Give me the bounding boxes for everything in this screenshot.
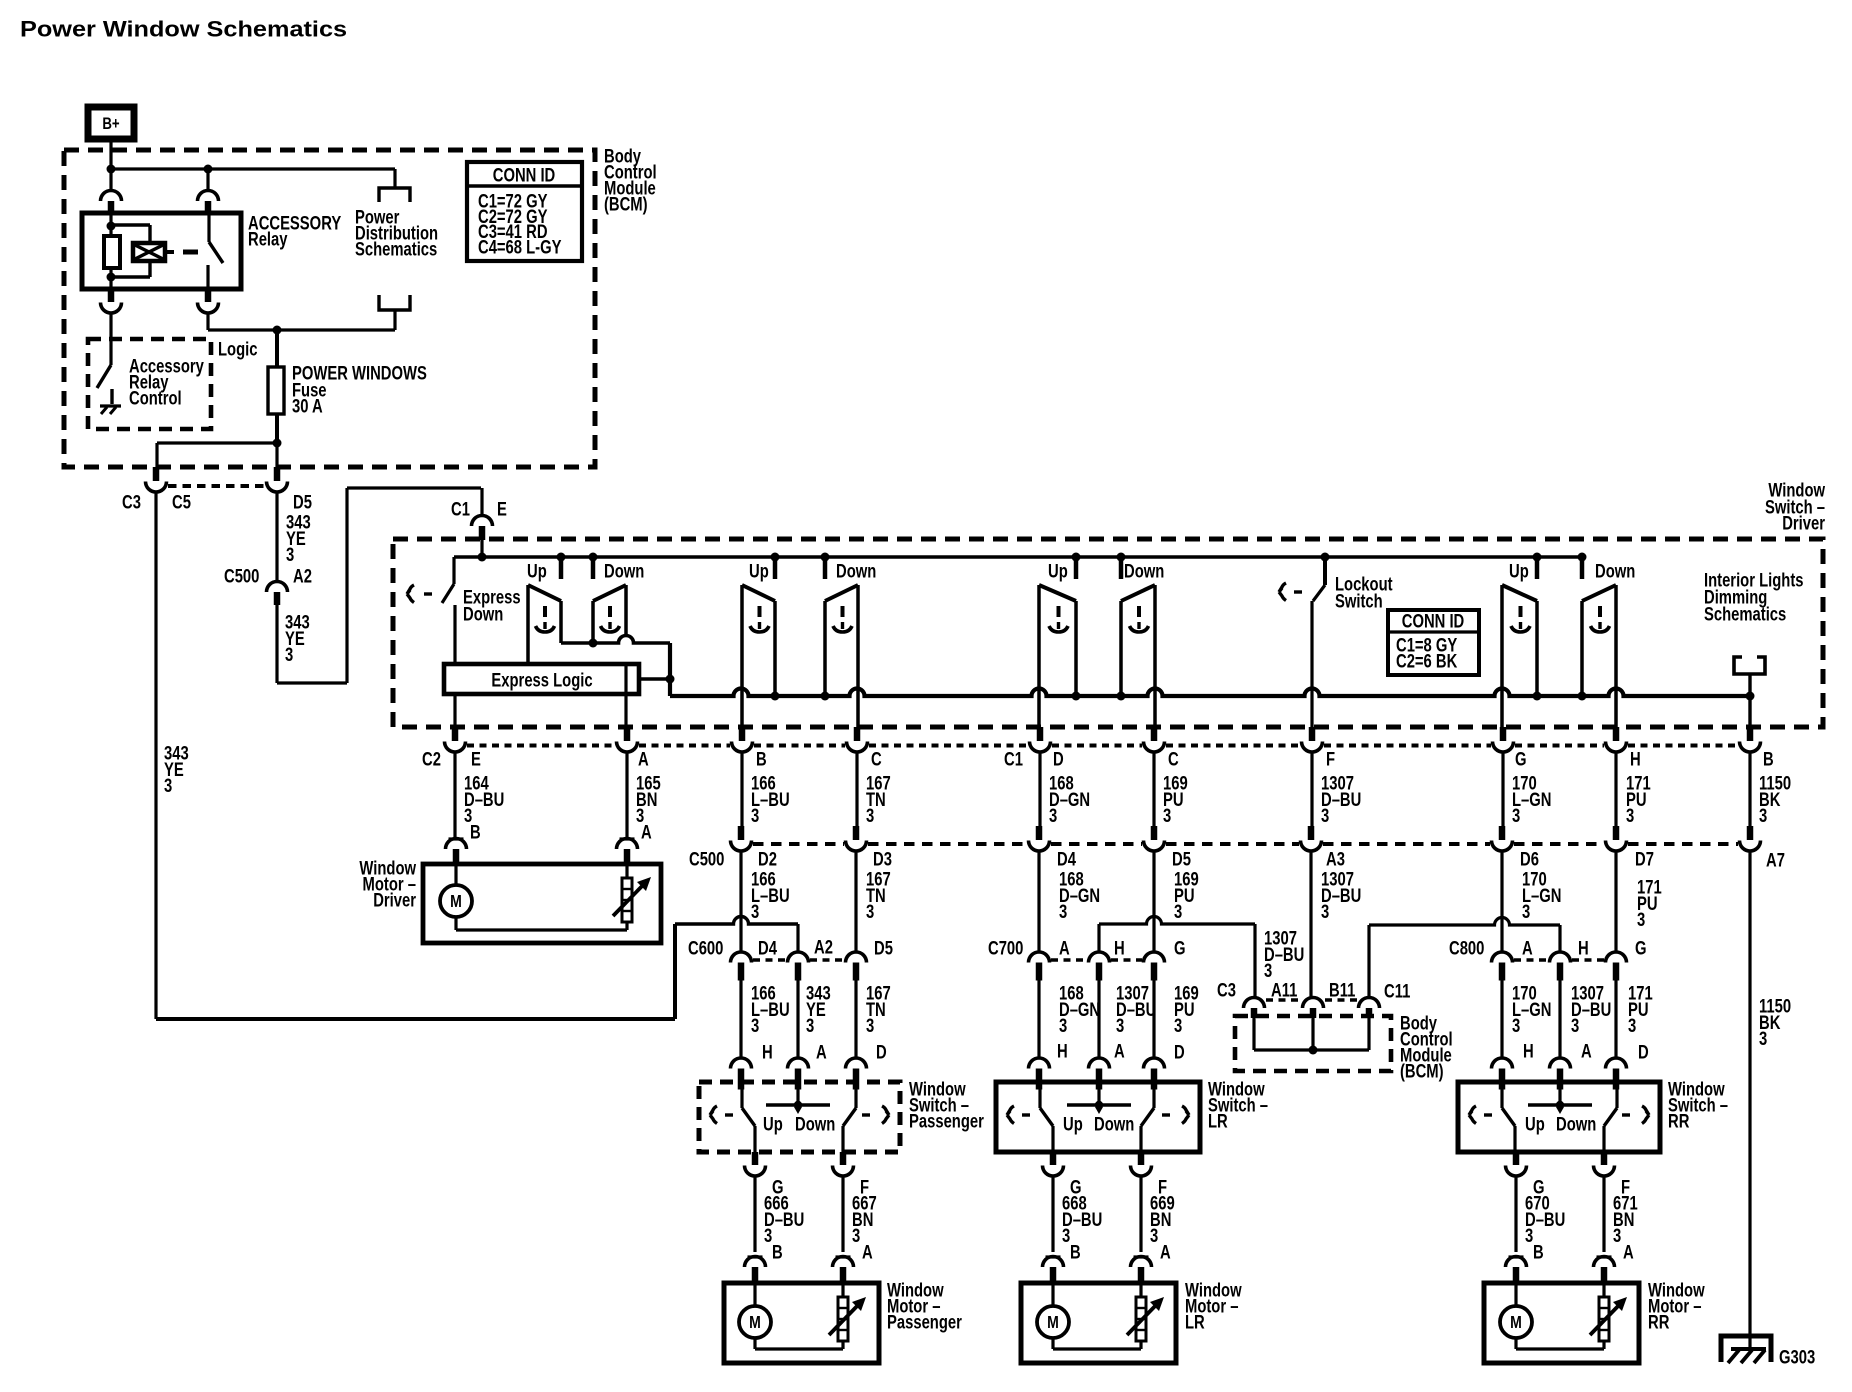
svg-text:3: 3 xyxy=(751,901,759,922)
svg-text:G: G xyxy=(1515,749,1527,770)
svg-text:3: 3 xyxy=(1628,1015,1636,1036)
svg-text:RR: RR xyxy=(1668,1111,1689,1132)
svg-text:Express Logic: Express Logic xyxy=(491,670,592,691)
svg-text:C3: C3 xyxy=(122,492,141,513)
svg-text:Down: Down xyxy=(1124,561,1164,582)
svg-text:3: 3 xyxy=(1174,901,1182,922)
svg-text:Logic: Logic xyxy=(218,339,257,360)
svg-text:C11: C11 xyxy=(1384,981,1410,1002)
svg-text:D5: D5 xyxy=(874,938,893,959)
svg-text:C800: C800 xyxy=(1449,938,1484,959)
svg-text:B+: B+ xyxy=(102,114,119,133)
svg-text:3: 3 xyxy=(1059,901,1067,922)
svg-text:3: 3 xyxy=(1059,1015,1067,1036)
svg-text:B: B xyxy=(470,822,481,843)
svg-text:3: 3 xyxy=(1163,805,1171,826)
svg-text:A: A xyxy=(816,1042,827,1063)
svg-text:CONN ID: CONN ID xyxy=(493,165,555,186)
svg-text:3: 3 xyxy=(1321,901,1329,922)
svg-text:H: H xyxy=(1057,1041,1068,1062)
svg-text:3: 3 xyxy=(164,775,172,796)
svg-text:D3: D3 xyxy=(873,849,892,870)
svg-text:C1: C1 xyxy=(451,499,470,520)
svg-text:M: M xyxy=(1047,1313,1059,1333)
svg-text:D: D xyxy=(1053,749,1064,770)
svg-text:G303: G303 xyxy=(1779,1347,1815,1368)
svg-text:3: 3 xyxy=(1759,805,1767,826)
svg-text:Passenger: Passenger xyxy=(909,1111,984,1132)
svg-text:Power Window Schematics: Power Window Schematics xyxy=(20,18,347,42)
svg-text:A: A xyxy=(1623,1242,1634,1263)
svg-text:D6: D6 xyxy=(1520,849,1539,870)
svg-text:3: 3 xyxy=(1116,1015,1124,1036)
svg-text:F: F xyxy=(1326,749,1335,770)
svg-text:Up: Up xyxy=(1509,561,1529,582)
svg-text:D: D xyxy=(1174,1042,1185,1063)
svg-text:3: 3 xyxy=(1613,1225,1621,1246)
svg-text:B: B xyxy=(756,749,767,770)
svg-text:B: B xyxy=(1533,1242,1544,1263)
svg-text:A: A xyxy=(1160,1242,1171,1263)
svg-text:H: H xyxy=(1578,938,1589,959)
svg-text:3: 3 xyxy=(1759,1028,1767,1049)
svg-text:G: G xyxy=(1635,938,1647,959)
svg-text:3: 3 xyxy=(1571,1015,1579,1036)
svg-text:B11: B11 xyxy=(1329,980,1355,1001)
svg-text:3: 3 xyxy=(286,544,294,565)
svg-text:C500: C500 xyxy=(689,849,724,870)
svg-text:M: M xyxy=(749,1313,761,1333)
svg-text:Down: Down xyxy=(463,604,503,625)
svg-text:D: D xyxy=(876,1042,887,1063)
svg-text:Up: Up xyxy=(1063,1114,1083,1135)
svg-text:3: 3 xyxy=(866,805,874,826)
svg-text:Down: Down xyxy=(836,561,876,582)
svg-text:B: B xyxy=(772,1242,783,1263)
svg-text:C: C xyxy=(1168,749,1179,770)
svg-text:D2: D2 xyxy=(758,849,777,870)
svg-text:Down: Down xyxy=(1556,1114,1596,1135)
svg-text:3: 3 xyxy=(1049,805,1057,826)
svg-text:B: B xyxy=(1763,749,1774,770)
svg-text:3: 3 xyxy=(1321,805,1329,826)
svg-text:E: E xyxy=(471,749,481,770)
svg-text:3: 3 xyxy=(1512,805,1520,826)
svg-text:A11: A11 xyxy=(1271,980,1297,1001)
svg-text:C2=6 BK: C2=6 BK xyxy=(1396,651,1458,672)
svg-text:E: E xyxy=(497,499,507,520)
svg-text:H: H xyxy=(1114,938,1125,959)
svg-text:3: 3 xyxy=(1150,1225,1158,1246)
svg-text:3: 3 xyxy=(866,1015,874,1036)
svg-text:D4: D4 xyxy=(758,938,777,959)
svg-text:3: 3 xyxy=(806,1015,814,1036)
svg-text:A2: A2 xyxy=(814,937,833,958)
svg-text:Down: Down xyxy=(795,1114,835,1135)
svg-text:3: 3 xyxy=(1174,1015,1182,1036)
svg-text:3: 3 xyxy=(1626,805,1634,826)
svg-text:D5: D5 xyxy=(293,492,312,513)
svg-text:C: C xyxy=(871,749,882,770)
svg-text:3: 3 xyxy=(1264,960,1272,981)
svg-text:3: 3 xyxy=(1512,1015,1520,1036)
svg-text:A: A xyxy=(1059,938,1070,959)
svg-text:D7: D7 xyxy=(1635,849,1654,870)
svg-text:H: H xyxy=(1523,1041,1534,1062)
svg-text:Relay: Relay xyxy=(248,229,288,250)
svg-text:C600: C600 xyxy=(688,938,723,959)
svg-text:M: M xyxy=(450,892,462,912)
svg-text:A: A xyxy=(1522,938,1533,959)
svg-text:3: 3 xyxy=(285,644,293,665)
svg-text:A3: A3 xyxy=(1326,849,1345,870)
svg-text:C4=68 L-GY: C4=68 L-GY xyxy=(478,237,562,258)
svg-text:3: 3 xyxy=(866,901,874,922)
svg-text:A: A xyxy=(1114,1041,1125,1062)
svg-text:3: 3 xyxy=(1062,1225,1070,1246)
svg-text:A7: A7 xyxy=(1766,850,1785,871)
svg-text:30 A: 30 A xyxy=(292,396,323,417)
svg-text:LR: LR xyxy=(1185,1312,1205,1333)
svg-text:M: M xyxy=(1510,1313,1522,1333)
svg-text:A: A xyxy=(862,1242,873,1263)
svg-text:Schematics: Schematics xyxy=(1704,604,1786,625)
svg-text:A: A xyxy=(641,822,652,843)
svg-text:Up: Up xyxy=(763,1114,783,1135)
svg-text:3: 3 xyxy=(1522,901,1530,922)
svg-text:H: H xyxy=(762,1042,773,1063)
svg-text:3: 3 xyxy=(764,1225,772,1246)
svg-text:C1: C1 xyxy=(1004,749,1023,770)
svg-text:C5: C5 xyxy=(172,492,191,513)
svg-text:3: 3 xyxy=(1525,1225,1533,1246)
svg-text:Down: Down xyxy=(604,561,644,582)
svg-text:3: 3 xyxy=(1637,909,1645,930)
svg-text:Passenger: Passenger xyxy=(887,1312,962,1333)
svg-text:C3: C3 xyxy=(1217,980,1236,1001)
svg-text:H: H xyxy=(1630,749,1641,770)
svg-text:Up: Up xyxy=(527,561,547,582)
svg-text:Control: Control xyxy=(129,388,182,409)
svg-text:Up: Up xyxy=(749,561,769,582)
svg-text:Up: Up xyxy=(1048,561,1068,582)
svg-text:Up: Up xyxy=(1525,1114,1545,1135)
svg-text:C2: C2 xyxy=(422,749,441,770)
svg-text:A: A xyxy=(1581,1041,1592,1062)
svg-text:3: 3 xyxy=(751,1015,759,1036)
svg-text:D5: D5 xyxy=(1172,849,1191,870)
svg-text:A: A xyxy=(638,749,649,770)
svg-text:3: 3 xyxy=(852,1225,860,1246)
svg-text:B: B xyxy=(1070,1242,1081,1263)
svg-text:CONN ID: CONN ID xyxy=(1402,611,1464,632)
svg-text:G: G xyxy=(1174,938,1186,959)
svg-text:Switch: Switch xyxy=(1335,591,1383,612)
svg-text:D: D xyxy=(1638,1042,1649,1063)
svg-text:(BCM): (BCM) xyxy=(604,194,648,215)
svg-text:RR: RR xyxy=(1648,1312,1669,1333)
svg-text:Schematics: Schematics xyxy=(355,239,437,260)
svg-text:Down: Down xyxy=(1094,1114,1134,1135)
svg-text:Down: Down xyxy=(1595,561,1635,582)
svg-text:A2: A2 xyxy=(293,566,312,587)
svg-text:C700: C700 xyxy=(988,938,1023,959)
svg-text:D4: D4 xyxy=(1057,849,1076,870)
svg-text:Driver: Driver xyxy=(373,890,416,911)
svg-text:(BCM): (BCM) xyxy=(1400,1061,1444,1082)
svg-text:3: 3 xyxy=(751,805,759,826)
svg-text:C500: C500 xyxy=(224,566,259,587)
svg-text:Driver: Driver xyxy=(1782,513,1825,534)
svg-text:LR: LR xyxy=(1208,1111,1228,1132)
